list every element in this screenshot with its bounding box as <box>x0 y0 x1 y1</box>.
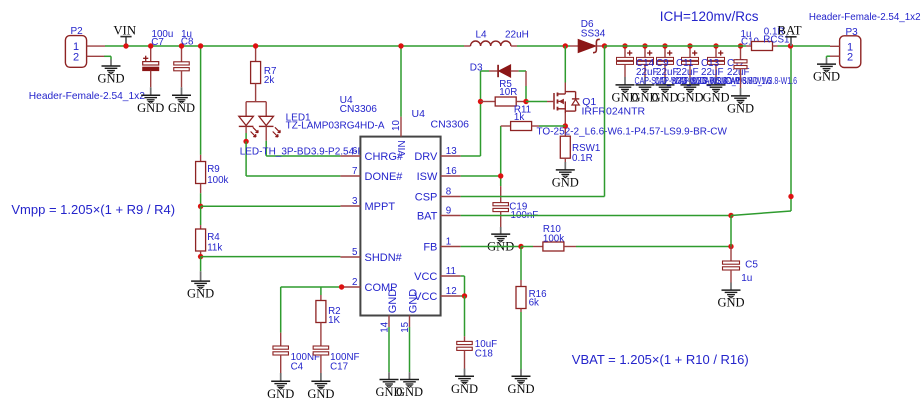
svg-text:100k: 100k <box>543 234 564 245</box>
label C8 <box>181 37 194 48</box>
connector P3 <box>830 27 861 68</box>
wire P3 pin2 <box>827 55 831 57</box>
capacitor C13 <box>682 46 699 77</box>
svg-text:VIN: VIN <box>113 23 136 37</box>
junction FB <box>518 244 523 249</box>
pin 12 VCC <box>414 286 460 303</box>
wire R4 to GND <box>200 257 202 272</box>
resistor R7 <box>251 46 261 102</box>
label 2k <box>264 75 274 86</box>
junction rail pin10 <box>398 43 403 48</box>
wire VIN rail left <box>105 45 464 47</box>
junction D6 cathode <box>602 43 607 48</box>
svg-text:CAP-SMD_W3.8-W1.6: CAP-SMD_W3.8-W1.6 <box>726 76 798 87</box>
wire rail to Q1 drain <box>564 46 566 83</box>
label 1u C10 <box>741 29 752 40</box>
ground C4 <box>267 373 294 401</box>
junction D6 anode <box>563 43 568 48</box>
svg-text:GND: GND <box>717 296 744 310</box>
label U4 second <box>412 108 426 120</box>
svg-text:U4: U4 <box>412 108 426 120</box>
wire gate <box>526 101 547 103</box>
wire R11 riser <box>500 126 502 186</box>
wire VCC11 <box>461 275 465 277</box>
svg-text:L4: L4 <box>476 30 488 41</box>
svg-text:Header-Female-2.54_1x2: Header-Female-2.54_1x2 <box>29 91 145 102</box>
ground R16 <box>507 369 534 396</box>
svg-text:0.1R: 0.1R <box>572 153 593 164</box>
ground R4 <box>187 271 214 300</box>
ground C13 <box>676 77 703 104</box>
svg-text:GND: GND <box>267 387 294 401</box>
wire bank rail <box>605 45 747 47</box>
wire P2 pin2 to GND <box>104 55 111 57</box>
label D6 <box>581 19 594 30</box>
resistor R16 <box>516 280 526 312</box>
label C14 <box>636 58 655 69</box>
label CN3306 second <box>431 119 470 131</box>
svg-text:7: 7 <box>352 166 357 177</box>
label VBAT formula <box>572 352 749 367</box>
svg-text:GND: GND <box>187 287 214 301</box>
junction ISW C19 <box>498 173 503 178</box>
svg-text:SHDN#: SHDN# <box>365 252 403 264</box>
label 100k <box>207 175 228 186</box>
capacitor C8 <box>174 46 190 87</box>
wire MPPT node to R4 <box>200 206 202 225</box>
label 1u <box>181 29 192 40</box>
svg-text:GND: GND <box>97 72 124 86</box>
label R10 <box>543 224 562 235</box>
label 100k R10 <box>543 234 564 245</box>
label 1K <box>328 315 340 326</box>
svg-text:1: 1 <box>446 236 451 247</box>
junction rail R7 <box>253 43 258 48</box>
wire CSP riser <box>604 46 606 197</box>
svg-text:BAT: BAT <box>417 211 438 223</box>
label R11 <box>514 104 531 115</box>
svg-text:R9: R9 <box>207 164 220 175</box>
junction BAT wire <box>728 213 733 218</box>
svg-text:C7: C7 <box>151 37 164 48</box>
svg-text:6: 6 <box>352 146 358 157</box>
label LED-TH footprint <box>240 146 381 157</box>
resistor R9 <box>196 155 206 193</box>
ground C19 <box>487 227 514 254</box>
wire RCS1 to P3 <box>778 45 831 47</box>
ground P3 <box>813 58 840 84</box>
resistor R10 <box>533 242 576 251</box>
junction C12 <box>713 43 718 48</box>
capacitor C17 <box>313 346 329 373</box>
ground C5 <box>717 283 744 310</box>
ground C11 <box>651 77 678 104</box>
label CN3306 first <box>340 104 378 115</box>
label 100u <box>152 29 174 40</box>
wire pin15 down <box>409 327 411 372</box>
label R9 <box>207 164 220 175</box>
label 100NF C17 <box>330 352 359 363</box>
svg-text:SS34: SS34 <box>581 29 606 40</box>
svg-text:D3: D3 <box>470 62 483 73</box>
junction C9 <box>642 43 647 48</box>
wire BAT pin <box>461 215 731 217</box>
junction C11 <box>662 43 667 48</box>
wire D3 left <box>481 70 490 72</box>
capacitor C9 <box>637 46 654 77</box>
wire R16 drop <box>520 247 522 281</box>
wire DRV riser <box>480 71 482 156</box>
svg-text:DRV: DRV <box>414 151 438 163</box>
svg-text:C5: C5 <box>745 260 758 271</box>
ground RSW1 <box>552 162 579 189</box>
ground C9 <box>631 77 658 104</box>
pin 9 BAT <box>417 205 461 222</box>
resistor R11 <box>501 122 539 131</box>
label C19 <box>509 202 527 213</box>
label 10R <box>499 87 517 98</box>
junction C8 <box>179 43 184 48</box>
junction BAT riser top <box>788 194 793 199</box>
pin 10 VIN <box>391 117 408 157</box>
svg-text:Vmpp = 1.205×(1 + R9 / R4): Vmpp = 1.205×(1 + R9 / R4) <box>11 202 175 217</box>
resistor R5 <box>481 97 527 106</box>
svg-text:GND: GND <box>651 90 678 104</box>
ground pin14 <box>375 372 402 399</box>
junction VCC <box>462 293 467 298</box>
svg-text:TZ-LAMP03RG4HD-A: TZ-LAMP03RG4HD-A <box>286 121 385 132</box>
wire D3 right drop upper <box>525 71 527 86</box>
wire R16 to GND <box>520 312 522 369</box>
wire FB <box>461 246 521 248</box>
ground C12 <box>702 77 729 104</box>
label C5 <box>745 260 758 271</box>
label TZ-LAMP03RG4HD-A <box>286 121 385 132</box>
ground C14 <box>611 77 638 104</box>
label R4 <box>207 232 220 243</box>
svg-text:GND: GND <box>396 385 423 399</box>
label IRFR024NTR <box>582 106 646 118</box>
svg-text:GND: GND <box>727 101 754 115</box>
wire P3 GND drop <box>826 56 828 58</box>
net flag BAT <box>777 24 801 46</box>
svg-text:GND: GND <box>552 175 579 189</box>
wire pin14 down <box>388 327 390 372</box>
resistor RSW1 <box>560 136 570 162</box>
label RCS1 <box>763 34 789 45</box>
label U4 first <box>340 95 353 106</box>
svg-text:P3: P3 <box>846 27 859 38</box>
label D3 <box>470 62 483 73</box>
label 1u C5 <box>741 273 752 284</box>
wire MPPT <box>201 205 341 207</box>
svg-text:GND: GND <box>676 90 703 104</box>
svg-text:2: 2 <box>73 51 79 63</box>
ground P2 <box>97 60 124 86</box>
pin 8 CSP <box>415 186 461 203</box>
label 0.1R RSW1 <box>572 153 593 164</box>
svg-text:11k: 11k <box>207 243 222 254</box>
junction MPPT node <box>198 204 203 209</box>
capacitor C19 <box>493 186 509 227</box>
label 1k <box>514 112 524 123</box>
transistor Q1 <box>554 83 579 137</box>
junction COMP <box>339 284 344 289</box>
diode D3 <box>489 65 519 77</box>
label C12 <box>727 58 745 69</box>
wire BAT riser <box>790 46 792 211</box>
junction C14 <box>622 43 627 48</box>
label footprint C9 <box>655 76 727 87</box>
capacitor C11 <box>657 46 674 77</box>
label R7 <box>264 66 277 77</box>
label LED1 <box>286 112 311 123</box>
connector P2 <box>65 26 105 67</box>
ground C17 <box>307 373 334 401</box>
svg-text:GND: GND <box>702 90 729 104</box>
pin 1 FB <box>423 236 460 253</box>
wire R9 to MPPT node <box>200 193 202 206</box>
svg-text:2: 2 <box>352 277 357 288</box>
wire SHDN <box>201 256 341 258</box>
svg-text:8: 8 <box>446 186 452 197</box>
svg-text:IRFR024NTR: IRFR024NTR <box>582 106 646 118</box>
svg-text:10R: 10R <box>499 87 517 98</box>
svg-text:GND: GND <box>387 289 399 314</box>
wire R11 to source <box>539 125 565 127</box>
svg-text:10: 10 <box>391 120 402 131</box>
label C7 <box>151 37 164 48</box>
svg-text:C17: C17 <box>330 362 348 373</box>
svg-text:CSP: CSP <box>415 192 438 204</box>
svg-text:GND: GND <box>813 70 840 84</box>
svg-text:GND: GND <box>451 382 478 396</box>
svg-text:2: 2 <box>847 52 853 64</box>
svg-text:1K: 1K <box>328 315 340 326</box>
wire L4 to D6 <box>517 45 570 47</box>
junction C10 <box>738 43 743 48</box>
label C17 <box>330 362 348 373</box>
wire R10 to BAT node <box>576 246 731 248</box>
label TO-252 footprint <box>537 127 728 138</box>
ground C18 <box>451 369 478 396</box>
label 22uF C12 <box>727 67 750 78</box>
pin 2 COMP <box>340 277 397 294</box>
label C10 <box>741 36 760 47</box>
label R16 <box>529 289 548 300</box>
label C18 <box>475 349 494 360</box>
svg-text:GND: GND <box>137 101 164 115</box>
svg-text:VBAT = 1.205×(1 + R10 / R16): VBAT = 1.205×(1 + R10 / R16) <box>572 352 749 367</box>
junction gate node right <box>523 99 528 104</box>
wire P2 GND drop <box>110 56 112 59</box>
svg-text:ISW: ISW <box>417 171 438 183</box>
junction SHDN node <box>198 254 203 259</box>
inductor L4 <box>464 41 517 46</box>
label 22uF C9 <box>656 67 679 78</box>
label SS34 <box>581 29 606 40</box>
svg-text:2k: 2k <box>264 75 274 86</box>
label 0.1R RCS1 <box>764 27 785 38</box>
junction C7 <box>148 43 153 48</box>
label 22uH <box>505 30 529 41</box>
capacitor C4 <box>273 333 289 373</box>
wire CHRG horizontal <box>266 155 340 157</box>
pin 13 DRV <box>414 146 460 163</box>
wire BAT node vertical <box>730 216 732 247</box>
wire R2 drop <box>320 287 322 295</box>
wire right LED cathode <box>265 141 267 156</box>
label footprint C13 <box>700 76 772 87</box>
label 22uF C14 <box>636 67 659 78</box>
capacitor C5 <box>723 247 740 283</box>
ground C7 <box>137 87 164 115</box>
ground C8 <box>168 87 195 115</box>
label Vmpp formula <box>11 202 175 217</box>
label footprint C14 <box>635 76 707 87</box>
svg-text:CN3306: CN3306 <box>340 104 378 115</box>
label 6k <box>529 298 539 309</box>
svg-text:VCC: VCC <box>414 271 437 283</box>
wire C4 drop <box>280 287 282 333</box>
junction VIN <box>123 43 128 48</box>
label ICH formula <box>660 9 759 24</box>
wire FB to R10 <box>521 246 533 248</box>
label Q1 <box>582 96 596 108</box>
pin 11 VCC <box>414 266 460 283</box>
svg-text:100k: 100k <box>207 175 228 186</box>
pin 6 CHRG# <box>340 146 403 163</box>
junction gate node left <box>478 99 483 104</box>
svg-text:Header-Female-2.54_1x2: Header-Female-2.54_1x2 <box>809 12 921 23</box>
svg-text:BAT: BAT <box>777 24 801 38</box>
svg-text:C8: C8 <box>181 37 194 48</box>
pin 14 GND <box>380 289 400 333</box>
resistor R2 <box>316 295 326 346</box>
label L4 <box>476 30 488 41</box>
wire VCC to C18 <box>464 296 466 336</box>
label 22uF C13 <box>701 67 724 78</box>
capacitor C18 <box>457 336 473 368</box>
pin 15 GND <box>400 289 420 333</box>
pin 3 MPPT <box>340 196 395 213</box>
label footprint C11 <box>675 76 747 87</box>
capacitor C10 <box>734 46 747 88</box>
svg-text:16: 16 <box>446 166 457 177</box>
LED LED1 <box>239 102 280 141</box>
wire gate lead <box>547 101 554 103</box>
ground C10 <box>727 88 754 115</box>
ground pin15 <box>396 372 423 399</box>
svg-text:VIN: VIN <box>397 140 408 157</box>
svg-text:GND: GND <box>507 382 534 396</box>
junction left LED <box>243 139 248 144</box>
wire COMP horizontal <box>281 286 342 288</box>
wire D3 right <box>519 70 526 72</box>
wire VCC link <box>464 276 466 296</box>
svg-text:5: 5 <box>352 247 358 258</box>
wire D3 to R5 right <box>525 86 527 102</box>
capacitor C7 <box>143 46 159 87</box>
label Header-Female right <box>809 12 921 23</box>
resistor RCS1 <box>746 42 778 51</box>
wire CSP <box>461 196 605 198</box>
label footprint C12 <box>726 76 798 87</box>
label R2 <box>328 306 341 317</box>
wire rail to pin10 <box>400 46 402 117</box>
svg-text:MPPT: MPPT <box>365 201 396 213</box>
wire DONE horizontal <box>246 175 340 177</box>
wire left LED cathode <box>245 133 247 141</box>
net flag VIN <box>113 23 136 46</box>
svg-text:ICH=120mv/Rcs: ICH=120mv/Rcs <box>660 9 759 24</box>
label Header-Female left <box>29 91 145 102</box>
svg-text:6k: 6k <box>529 298 539 309</box>
capacitor C14 <box>617 46 634 77</box>
svg-text:12: 12 <box>446 286 457 297</box>
label C4 <box>291 362 304 373</box>
wire ISW <box>461 175 501 177</box>
label RSW1 <box>572 143 600 154</box>
wire DRV to node <box>461 155 481 157</box>
svg-text:R4: R4 <box>207 232 220 243</box>
svg-text:FB: FB <box>423 242 437 254</box>
junction Q1 source <box>563 123 568 128</box>
label 100NF C4 <box>291 352 320 363</box>
junction BAT R10 C5 <box>728 244 733 249</box>
junction C13 <box>687 43 692 48</box>
wire BAT diagonal <box>731 211 791 216</box>
wire VCC12 <box>461 295 465 297</box>
svg-text:11: 11 <box>446 266 456 277</box>
svg-text:1k: 1k <box>514 112 524 123</box>
svg-text:GND: GND <box>307 387 334 401</box>
svg-text:C18: C18 <box>475 349 494 360</box>
svg-text:9: 9 <box>446 205 451 216</box>
resistor R4 <box>196 225 206 257</box>
svg-text:CN3306: CN3306 <box>431 119 470 131</box>
svg-text:DONE#: DONE# <box>365 171 404 183</box>
svg-text:3: 3 <box>352 196 358 207</box>
svg-text:P2: P2 <box>71 26 84 37</box>
svg-text:22uH: 22uH <box>505 30 529 41</box>
svg-text:13: 13 <box>446 146 457 157</box>
junction rail R9 <box>198 43 203 48</box>
label C13 <box>701 58 720 69</box>
op-amp U4 body <box>360 137 440 316</box>
label C11 <box>676 58 694 69</box>
svg-text:1u: 1u <box>741 273 752 284</box>
svg-text:C4: C4 <box>291 362 304 373</box>
pin 16 ISW <box>417 166 461 183</box>
label 22uF C11 <box>676 67 699 78</box>
diode D6 <box>570 39 605 52</box>
label R5 <box>499 79 512 90</box>
pin 7 DONE# <box>340 166 403 183</box>
label 10uF <box>475 339 497 350</box>
svg-text:GND: GND <box>408 289 420 314</box>
label 11k <box>207 243 222 254</box>
wire DONE drop <box>245 141 247 176</box>
label 100nF <box>511 210 539 221</box>
label C9 <box>656 58 669 69</box>
junction BAT flag <box>788 43 793 48</box>
capacitor C12 <box>708 46 725 77</box>
wire rail to R9 <box>200 46 202 155</box>
svg-text:GND: GND <box>168 101 195 115</box>
pin 5 SHDN# <box>340 247 402 264</box>
